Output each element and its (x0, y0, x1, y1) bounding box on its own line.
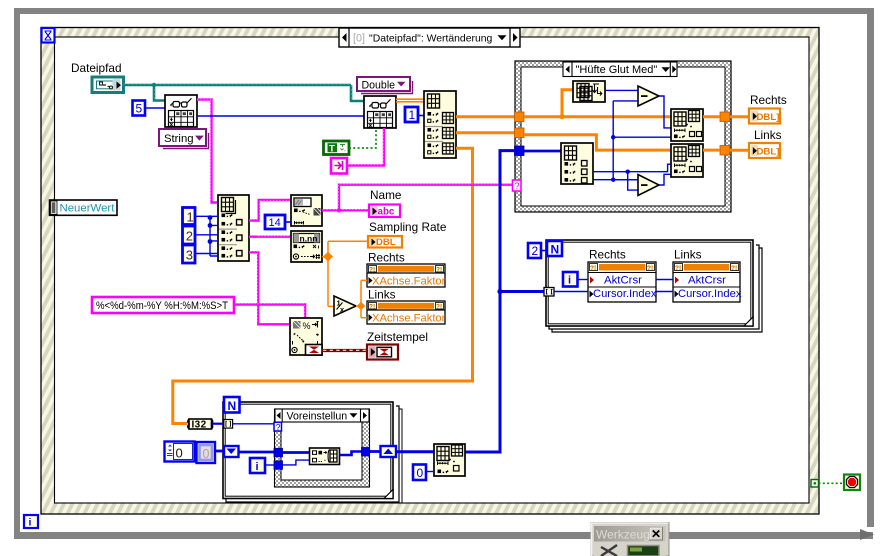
wire magenta date format to scan time (234, 304, 305, 325)
svg-text:Sampling Rate: Sampling Rate (369, 220, 447, 234)
iteration terminal i (bottom-left, while loop) (24, 515, 38, 529)
case2 tunnel blue 1 (274, 448, 283, 457)
wire tunnel1 to replace node (283, 451, 310, 454)
FOR LOOP (cursor property) (546, 240, 762, 332)
reciprocal node 1/x (334, 296, 356, 316)
svg-text:?!: ?! (590, 265, 596, 272)
index array node A (left, 3 inputs) (218, 195, 249, 261)
wire magenta subset to Name indicator (322, 184, 513, 213)
wire path (teal) Dateipfad to VIs (124, 84, 365, 101)
window top border (14, 8, 874, 14)
inner case selector label (275, 409, 369, 422)
svg-text:?!: ?! (675, 265, 681, 272)
svg-text:String: String (164, 133, 194, 145)
svg-text:DBL]: DBL] (757, 147, 780, 158)
window left border (14, 8, 20, 538)
svg-text:n.nn: n.nn (300, 233, 318, 243)
stop button (844, 475, 860, 491)
svg-text:Rechts: Rechts (589, 248, 626, 262)
svg-text:Werkzeuge: Werkzeuge (596, 528, 657, 542)
CASE STRUCTURE Voreinstellung (275, 409, 370, 487)
iteration terminal i 2 (250, 458, 265, 473)
scan time node (scan from string / timestamp) (290, 318, 322, 355)
CASE STRUCTURE Huefte Glut Med (515, 61, 731, 212)
svg-text:DBL]: DBL] (757, 112, 780, 123)
svg-text:?: ? (276, 422, 281, 432)
wire blue main array vertical (465, 151, 544, 452)
wire orange right tunnel2 to Links DBL (730, 149, 750, 152)
wire shift register to case tunnel (239, 451, 275, 454)
property node Rechts cursor (588, 262, 657, 302)
constant 1 (index) (183, 208, 196, 225)
subtract node 2 (638, 175, 659, 196)
event structure hatched border (41, 28, 819, 515)
svg-text:?: ? (515, 181, 520, 191)
svg-text:Rechts: Rechts (368, 251, 405, 265)
svg-text:0: 0 (203, 447, 210, 461)
wire AktCrsr to AktCrsr (656, 279, 673, 281)
wire timestamp (dark red) to Zeitstempel (322, 349, 367, 352)
svg-text:?!: ?! (731, 265, 737, 272)
for loop border with stack (549, 245, 759, 329)
wire (magenta) convert to VI2 bottom (347, 128, 384, 166)
scrollbar arrow bottom-right (860, 529, 874, 540)
string subset node (291, 195, 322, 226)
ring constant Double (357, 77, 413, 94)
inner case border (checkered) (275, 409, 370, 487)
wire orange E to right tunnel (703, 149, 720, 152)
event data node NeuerWert (50, 200, 118, 215)
EVENT STRUCTURE (41, 28, 819, 515)
wire blue subtract2 to interp E (659, 174, 671, 185)
wire orange case row2 elbow (524, 135, 671, 150)
svg-text:XAchse.Faktor: XAchse.Faktor (372, 313, 446, 325)
replace array subset node (310, 448, 340, 465)
svg-text:Name: Name (370, 188, 402, 202)
svg-text:0: 0 (176, 446, 183, 461)
constant 14 (265, 215, 285, 229)
svg-text:"Hüfte Glut Med": "Hüfte Glut Med" (576, 64, 658, 76)
case selector label (563, 62, 677, 77)
indicator Sampling Rate (DBL) (368, 236, 402, 248)
svg-text:N: N (228, 399, 237, 413)
wire blue subtract1 to interp node D (659, 96, 671, 128)
wire (magenta) VI1 out to index array A (197, 100, 218, 203)
constant 1 (405, 107, 418, 122)
wire Cursor.Index to Cursor.Index (656, 291, 673, 293)
ring constant String (159, 129, 209, 149)
wire 1 to index array B (418, 115, 424, 117)
indicator Name (string) (369, 205, 400, 218)
svg-text:abc: abc (378, 207, 395, 218)
wire I32 to tunnel (212, 423, 224, 425)
for loop 2 border with stack (226, 406, 399, 502)
wire (green dotted) to stop button (819, 482, 845, 484)
svg-text:Voreinstellun: Voreinstellun (287, 410, 348, 422)
iteration terminal i (563, 272, 578, 287)
svg-text:0: 0 (417, 466, 424, 480)
wire orange B out3 to I32 (long path) (173, 148, 473, 423)
case inner area (521, 67, 725, 206)
svg-text:i: i (29, 517, 32, 529)
svg-text:%: % (303, 321, 311, 331)
wire orange case row1 (through) (524, 115, 671, 118)
wire orange n.nn out with branches (322, 241, 368, 306)
timeout terminal (hourglass) (42, 28, 55, 43)
svg-text:NeuerWert: NeuerWert (60, 203, 116, 215)
constant 5 (133, 101, 146, 116)
case2 tunnel right (362, 448, 370, 457)
constant 2 (528, 243, 541, 258)
svg-text:1: 1 (187, 210, 194, 225)
event structure inner area (55, 37, 810, 503)
svg-text:%<%d-%m-%Y %H:%M:%S>T: %<%d-%m-%Y %H:%M:%S>T (96, 300, 228, 312)
svg-text:2: 2 (186, 229, 193, 244)
svg-text:?!: ?! (369, 304, 375, 311)
wire (blue) VI1 to VI2 (197, 115, 364, 117)
palette tool icons (594, 544, 666, 556)
svg-text:Rechts: Rechts (750, 93, 787, 107)
tunnel orange right 1 (720, 112, 730, 122)
svg-text:AktCrsr: AktCrsr (688, 275, 726, 287)
wire tunnel to Cursor.Index (554, 291, 588, 293)
svg-text:?!: ?! (369, 267, 375, 274)
wire 5 to VI1 (145, 107, 165, 109)
count terminal N (547, 241, 562, 257)
build array node F (434, 444, 465, 476)
dogear 2 (384, 490, 393, 499)
scan number node (fract/exp string to number) (291, 231, 322, 262)
svg-text:N: N (551, 243, 560, 257)
wire magenta A out3 down to scan time (249, 252, 290, 324)
wire (orange 2D) VI2 to index array B (396, 99, 424, 102)
wire magenta A out2 to scan number (249, 235, 291, 237)
palette window (591, 523, 669, 556)
subtract node 1 (638, 86, 659, 106)
wire blue C out2 to subtract2 (593, 179, 638, 181)
interpolate node E (bottom) (671, 144, 703, 177)
svg-text:3: 3 (186, 248, 193, 263)
tunnel orange left 1 (515, 112, 525, 122)
wire 0 to shift register (215, 450, 224, 453)
svg-text:Links: Links (368, 288, 396, 302)
index array node B (3 outputs) (424, 91, 456, 158)
property node Rechts XAchse.Faktor (367, 264, 446, 288)
convert node (string to path) (331, 158, 347, 174)
svg-text:?!: ?! (436, 304, 442, 311)
wire blue matrix to subtract1 (605, 89, 638, 91)
window bottom border (14, 532, 873, 539)
indicator Zeitstempel (timestamp) (367, 345, 398, 360)
svg-text:2: 2 (532, 244, 539, 258)
svg-text:?!: ?! (436, 267, 442, 274)
wire 14 to subset (285, 221, 291, 223)
wire i to case tunnel 2 (265, 464, 274, 466)
palette title bar (594, 526, 666, 542)
wire i to AktCrsr (578, 279, 589, 281)
wire tunnel2 to replace node (283, 460, 310, 465)
svg-text:Links: Links (674, 248, 702, 262)
index array node C (in case) (561, 143, 593, 184)
shift register left (down arrow) (224, 446, 239, 457)
svg-text:1: 1 (409, 108, 416, 122)
svg-text:T: T (329, 143, 335, 154)
wires 1 2 3 to node A (195, 215, 218, 256)
svg-text:"Dateipfad": Wertänderung: "Dateipfad": Wertänderung (369, 33, 493, 44)
wire blue into index node C (524, 150, 561, 153)
svg-text:[0]: [0] (353, 32, 365, 44)
window right border (867, 8, 874, 527)
conversion node I32 (188, 419, 213, 430)
palette close button (650, 528, 663, 541)
wire orange B out1 to case tunnel (456, 115, 515, 118)
constant True (boolean) (324, 141, 350, 155)
wire 0 to build node F (426, 471, 434, 473)
svg-text:XAchse.Faktor: XAchse.Faktor (372, 276, 446, 288)
VI Read Spreadsheet (String) U1 (165, 95, 197, 127)
WERKZEUGE PALETTE (591, 523, 669, 556)
wire orange B out2 to case tunnel (456, 131, 515, 134)
wire (green dotted) True to VI2 (349, 128, 376, 148)
svg-text:I32: I32 (192, 419, 207, 430)
svg-text:5: 5 (136, 102, 143, 116)
wire case tunnel to shift register right (370, 450, 381, 453)
svg-text:i: i (256, 461, 259, 473)
case selector terminal ? (513, 180, 522, 191)
svg-text:Cursor.Index: Cursor.Index (593, 288, 657, 300)
svg-text:Cursor.Index: Cursor.Index (678, 288, 742, 300)
shift register right (up arrow) (381, 446, 397, 457)
wire orange D to right tunnel (703, 115, 720, 118)
case border (checkered) (515, 61, 731, 212)
svg-text:AktCrsr: AktCrsr (604, 275, 642, 287)
property node Links cursor (673, 262, 742, 302)
tunnel on loop2 border (224, 420, 233, 429)
case2 selector terminal ? (274, 422, 282, 432)
numeric constant 0 (pale) (197, 442, 216, 463)
svg-text:Zeitstempel: Zeitstempel (367, 330, 428, 344)
constant 3 (index) (183, 245, 196, 263)
dogear (744, 317, 753, 326)
wire orange branch to matrix node (559, 90, 573, 120)
wire blue C out1 to interp E (593, 164, 671, 190)
wire loop2 out to build node F (396, 450, 434, 453)
string constant date format (92, 297, 234, 313)
indicator Rechts DBL array (749, 109, 780, 124)
svg-text:14: 14 (269, 217, 281, 229)
constant 2 (index) (183, 226, 196, 244)
stop terminal on event border (811, 480, 819, 488)
indexing tunnel on loop border (544, 288, 554, 297)
numeric constant 0 (with increment) (165, 442, 195, 462)
property node Links XAchse.Faktor (367, 301, 446, 325)
svg-text:Dateipfad: Dateipfad (71, 61, 122, 75)
path control Dateipfad (92, 77, 124, 93)
wire 2 to N (541, 250, 547, 252)
svg-text:Double: Double (362, 79, 396, 91)
wire orange 1/x out to property nodes (356, 280, 367, 317)
matrix size node (573, 81, 605, 102)
svg-text:DBL: DBL (376, 237, 396, 248)
tunnel blue left (515, 146, 525, 156)
tunnel orange right 2 (720, 146, 730, 156)
wire replace node to case right tunnel (340, 452, 362, 456)
svg-text:i: i (568, 275, 571, 287)
FOR LOOP (Voreinstellung) (223, 402, 402, 503)
svg-text:Links: Links (754, 128, 782, 142)
tunnel orange left 2 (515, 128, 525, 138)
wire tunnel to case selector (232, 423, 274, 425)
case2 tunnel blue 2 (274, 461, 283, 470)
VI Read Spreadsheet (Double) U2 (364, 96, 396, 128)
indicator Links DBL array (749, 143, 780, 158)
wire magenta A out1 to string subset (249, 200, 291, 221)
constant 0 (build) (413, 465, 426, 481)
count terminal N 2 (224, 397, 240, 413)
interpolate node D (top) (671, 109, 703, 141)
event selector label (339, 28, 520, 47)
svg-text:?!: ?! (647, 265, 653, 272)
wire orange right tunnel1 to Rechts DBL (730, 115, 750, 118)
wire blue vertical distributor (611, 101, 671, 182)
